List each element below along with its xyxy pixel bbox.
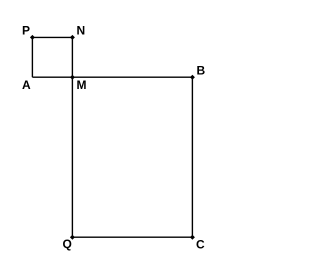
segment QC (bottom side of rectangle) (72, 236, 192, 238)
svg-text:N: N (77, 23, 86, 37)
svg-text:Q: Q (63, 237, 72, 251)
svg-text:M: M (77, 78, 87, 92)
point P (30, 35, 35, 40)
segment AMB (horizontal line through A, M to B) (32, 76, 192, 78)
point N (70, 35, 75, 40)
svg-text:A: A (22, 78, 31, 92)
point B (190, 75, 195, 80)
point Q (70, 235, 75, 240)
segment BC (right side of rectangle) (191, 77, 193, 237)
svg-text:P: P (22, 23, 30, 37)
point M (70, 75, 75, 80)
point C (190, 235, 195, 240)
svg-text:B: B (197, 63, 206, 77)
segment PN (top side of small square) (32, 36, 72, 38)
segment PA (left side of small square) (31, 37, 33, 77)
svg-text:C: C (196, 237, 205, 251)
segment NMQ (vertical line through N, M to Q) (71, 37, 73, 237)
